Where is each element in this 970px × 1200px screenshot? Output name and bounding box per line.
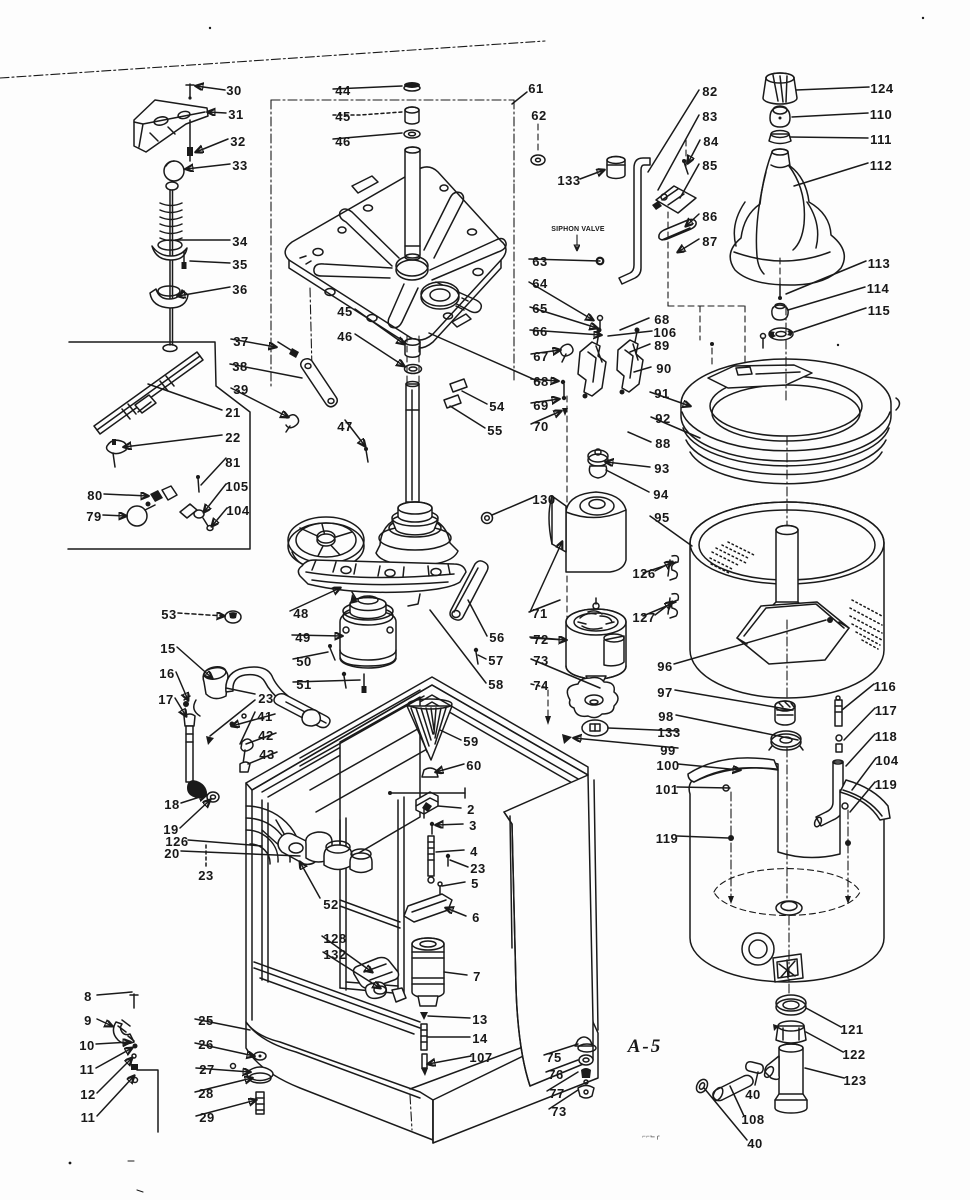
- mounting bolts 119 dashed: [730, 792, 732, 896]
- svg-text:64: 64: [532, 276, 548, 291]
- canister 133: [607, 157, 625, 179]
- brake package below gearcase: [340, 594, 396, 668]
- svg-text:110: 110: [870, 107, 892, 122]
- bracket 2: [416, 792, 438, 818]
- gearcase 49 body: [298, 502, 466, 606]
- svg-text:60: 60: [466, 758, 481, 773]
- rod 107: [421, 1054, 428, 1076]
- suspension rod 34 with spring seats: [150, 190, 188, 352]
- svg-text:9: 9: [84, 1013, 92, 1028]
- svg-text:11: 11: [80, 1062, 95, 1077]
- motor 72: [566, 598, 626, 692]
- screw 30: [186, 84, 194, 100]
- svg-text:85: 85: [702, 158, 717, 173]
- cap 60: [422, 768, 438, 777]
- svg-text:114: 114: [867, 281, 890, 296]
- hose 50: [226, 667, 330, 728]
- screw 81: [196, 475, 200, 492]
- svg-text:61: 61: [528, 81, 543, 96]
- svg-text:90: 90: [656, 361, 671, 376]
- svg-text:107: 107: [469, 1050, 492, 1065]
- svg-text:12: 12: [80, 1087, 95, 1102]
- bolt 51: [362, 674, 367, 693]
- bushing 45: [405, 107, 419, 124]
- svg-text:84: 84: [703, 134, 719, 149]
- svg-text:31: 31: [228, 107, 243, 122]
- svg-text:112: 112: [870, 158, 892, 173]
- washer 46: [404, 130, 420, 138]
- link 38: [301, 359, 338, 407]
- svg-text:113: 113: [868, 256, 890, 271]
- clamp 22: [107, 439, 127, 467]
- svg-text:38: 38: [232, 359, 247, 374]
- valve fitting 128 132: [354, 958, 407, 1003]
- svg-text:83: 83: [702, 109, 717, 124]
- bracket 68 right: [617, 328, 643, 395]
- svg-text:118: 118: [875, 729, 897, 744]
- center dashdot axis: [785, 306, 787, 332]
- perforation patches: [710, 542, 754, 573]
- svg-text:67: 67: [533, 349, 548, 364]
- screws 41 42 43: [206, 714, 253, 772]
- svg-text:54: 54: [489, 399, 505, 414]
- damper rod 4: [428, 836, 434, 883]
- bolt 92 top of ring: [710, 334, 766, 369]
- svg-text:94: 94: [653, 487, 669, 502]
- cabinet bottom skirt: [410, 1005, 598, 1143]
- svg-text:111: 111: [870, 132, 892, 147]
- bolt 74 dashed: [545, 690, 551, 725]
- svg-text:119: 119: [656, 831, 678, 846]
- agitator shaft lower (dashed continuation): [406, 336, 419, 502]
- bolt 51b: [342, 672, 346, 688]
- stud cap 44: [404, 82, 420, 91]
- bracket 66 left: [578, 328, 606, 399]
- svg-text:45: 45: [335, 109, 350, 124]
- svg-text:99: 99: [660, 743, 675, 758]
- washer 115: [769, 328, 793, 340]
- long dash-dot reference line top: [0, 41, 545, 78]
- svg-text:123: 123: [843, 1073, 866, 1088]
- inlet nozzle assembly 15-20: [183, 665, 228, 802]
- svg-text:133: 133: [557, 173, 580, 188]
- leveling leg 26 27 28 29: [231, 1052, 274, 1114]
- agitator shaft front: [405, 147, 420, 260]
- cabinet left wall: [246, 783, 433, 1140]
- tub cover ring 91: [681, 359, 900, 484]
- svg-text:41: 41: [257, 709, 272, 724]
- dash-dot enclosure around gearcase cover: [271, 100, 514, 388]
- svg-text:3: 3: [469, 818, 477, 833]
- inlet elbow 118: [813, 760, 843, 828]
- svg-text:20: 20: [164, 846, 179, 861]
- svg-text:14: 14: [472, 1031, 488, 1046]
- hook 39: [286, 415, 299, 432]
- svg-text:62: 62: [531, 108, 546, 123]
- ring 130: [482, 513, 493, 524]
- svg-text:57: 57: [488, 653, 503, 668]
- svg-text:127: 127: [632, 610, 655, 625]
- svg-text:68: 68: [533, 374, 548, 389]
- svg-text:32: 32: [230, 134, 245, 149]
- slinger 98: [769, 731, 803, 750]
- ball 33: [164, 161, 184, 190]
- counterweight bar 21: [94, 352, 203, 434]
- clip 99: [562, 734, 572, 744]
- svg-text:52: 52: [323, 897, 338, 912]
- svg-text:79: 79: [86, 509, 101, 524]
- feet 75 76 77 73: [575, 1037, 596, 1098]
- svg-text:2: 2: [467, 802, 475, 817]
- svg-text:69: 69: [533, 398, 548, 413]
- svg-text:40: 40: [747, 1136, 762, 1151]
- svg-text:51: 51: [296, 677, 311, 692]
- svg-text:25: 25: [198, 1013, 213, 1028]
- svg-text:26: 26: [198, 1037, 213, 1052]
- svg-text:130: 130: [532, 492, 555, 507]
- dashed box corner right of valve: [668, 212, 745, 372]
- svg-text:43: 43: [259, 747, 274, 762]
- svg-text:7: 7: [473, 969, 481, 984]
- svg-text:80: 80: [87, 488, 102, 503]
- inset box frame: [68, 342, 250, 549]
- center post: [768, 526, 806, 621]
- svg-text:33: 33: [232, 158, 247, 173]
- svg-text:36: 36: [232, 282, 247, 297]
- left flange 100: [688, 758, 778, 782]
- svg-text:35: 35: [232, 257, 247, 272]
- stray specks: [209, 27, 211, 29]
- springs 126 127 right: [668, 556, 678, 618]
- tub 95: [690, 502, 884, 698]
- bolt 47: [364, 447, 368, 462]
- svg-text:40: 40: [745, 1087, 760, 1102]
- svg-text:81: 81: [225, 455, 240, 470]
- svg-text:119: 119: [875, 777, 897, 792]
- screw 37: [278, 342, 299, 358]
- siphon pipe 82: [619, 158, 650, 284]
- svg-text:89: 89: [654, 338, 669, 353]
- svg-text:37: 37: [233, 334, 248, 349]
- svg-text:104: 104: [226, 503, 249, 518]
- bracket 31: [134, 100, 208, 152]
- svg-text:73: 73: [533, 653, 548, 668]
- svg-text:124: 124: [870, 81, 893, 96]
- bracket 6: [404, 894, 452, 922]
- bolt 106: [598, 316, 603, 331]
- svg-text:18: 18: [164, 797, 179, 812]
- svg-text:42: 42: [258, 728, 273, 743]
- bolt 117: [836, 735, 842, 752]
- solenoid 7: [412, 938, 444, 1006]
- svg-text:23: 23: [258, 691, 273, 706]
- svg-text:108: 108: [741, 1112, 764, 1127]
- spider on plate: [314, 192, 506, 328]
- stud 110: [770, 106, 790, 127]
- gasket 86 87: [659, 219, 696, 240]
- svg-text:SIPHON VALVE: SIPHON VALVE: [551, 226, 605, 233]
- svg-text:100: 100: [656, 758, 679, 773]
- svg-text:34: 34: [232, 234, 248, 249]
- svg-text:47: 47: [337, 419, 352, 434]
- retainer 133: [582, 720, 608, 736]
- svg-text:72: 72: [533, 632, 548, 647]
- svg-text:95: 95: [654, 510, 669, 525]
- drain tube 123: [763, 1044, 807, 1113]
- svg-text:122: 122: [842, 1047, 865, 1062]
- svg-text:46: 46: [335, 134, 350, 149]
- svg-text:91: 91: [654, 386, 669, 401]
- LEADERS: [96, 86, 876, 1140]
- svg-text:11: 11: [81, 1110, 96, 1125]
- cabinet top rails: [246, 677, 588, 797]
- svg-text:49: 49: [295, 630, 310, 645]
- svg-text:8: 8: [84, 989, 92, 1004]
- bushing 45 lower: [405, 339, 420, 357]
- svg-text:16: 16: [159, 666, 174, 681]
- funnel 59: [407, 699, 452, 760]
- svg-text:48: 48: [293, 606, 308, 621]
- clips 54 55: [444, 379, 467, 408]
- valve body 85: [652, 186, 696, 213]
- knob 79: [127, 505, 155, 526]
- svg-text:121: 121: [840, 1022, 863, 1037]
- svg-text:117: 117: [875, 703, 897, 718]
- svg-text:56: 56: [489, 630, 504, 645]
- clamp 40 small: [746, 1062, 763, 1073]
- seal 114: [772, 304, 788, 321]
- hose ring 121: [776, 995, 806, 1015]
- pump 52: [306, 832, 372, 873]
- svg-text:77: 77: [549, 1086, 564, 1101]
- screw 3: [430, 822, 434, 834]
- svg-text:29: 29: [199, 1110, 214, 1125]
- svg-text:23: 23: [470, 861, 485, 876]
- outer tub: [688, 306, 890, 996]
- elbow 40 lower: [694, 1077, 710, 1094]
- svg-text:63: 63: [532, 254, 547, 269]
- svg-text:82: 82: [702, 84, 717, 99]
- pulley 48: [288, 517, 364, 569]
- link 56: [450, 561, 488, 620]
- pump cam 74: [567, 678, 618, 718]
- svg-text:76: 76: [548, 1067, 563, 1082]
- svg-text:132: 132: [323, 947, 346, 962]
- svg-text:53: 53: [161, 607, 176, 622]
- svg-text:86: 86: [702, 209, 717, 224]
- svg-text:17: 17: [158, 692, 173, 707]
- svg-text:101: 101: [655, 782, 678, 797]
- washer 46 lower: [405, 365, 422, 374]
- clip 67: [560, 344, 573, 362]
- svg-text:87: 87: [702, 234, 717, 249]
- hinge screws 8-12: [113, 994, 158, 1132]
- svg-text:59: 59: [463, 734, 478, 749]
- agitator 112: [730, 149, 844, 285]
- washer 62: [531, 124, 545, 165]
- base casting: [298, 560, 466, 592]
- svg-text:133: 133: [657, 725, 680, 740]
- screw 23: [446, 854, 450, 866]
- svg-text:93: 93: [654, 461, 669, 476]
- side panel right: [504, 775, 598, 1086]
- svg-text:⌐⌐⌙╭: ⌐⌐⌙╭: [642, 1134, 660, 1140]
- svg-text:96: 96: [657, 659, 672, 674]
- svg-text:88: 88: [655, 436, 670, 451]
- screw 5: [438, 882, 442, 894]
- svg-text:74: 74: [533, 678, 549, 693]
- svg-text:70: 70: [533, 419, 548, 434]
- screw 13: [420, 1012, 428, 1020]
- svg-text:55: 55: [487, 423, 502, 438]
- coupling nut 122: [773, 1021, 806, 1043]
- gearcase cover plate: [285, 167, 506, 348]
- cabinet back wall and opening: [262, 690, 436, 994]
- svg-text:46: 46: [337, 329, 352, 344]
- seal 97: [775, 701, 795, 725]
- svg-text:75: 75: [546, 1050, 561, 1065]
- bolt 57: [474, 648, 478, 664]
- dashed drop line center: [566, 396, 568, 660]
- bolt set 80: [146, 486, 178, 507]
- svg-text:10: 10: [79, 1038, 94, 1053]
- svg-text:4: 4: [470, 844, 478, 859]
- svg-text:66: 66: [532, 324, 547, 339]
- svg-text:30: 30: [226, 83, 241, 98]
- svg-text:104: 104: [875, 753, 898, 768]
- svg-text:22: 22: [225, 430, 240, 445]
- svg-text:44: 44: [335, 83, 351, 98]
- svg-text:50: 50: [296, 654, 311, 669]
- svg-text:115: 115: [868, 303, 890, 318]
- svg-text:15: 15: [160, 641, 175, 656]
- svg-text:5: 5: [471, 876, 479, 891]
- svg-text:105: 105: [225, 479, 248, 494]
- svg-text:97: 97: [657, 685, 672, 700]
- fasteners 68 69 70: [561, 380, 568, 416]
- svg-text:13: 13: [472, 1012, 487, 1027]
- right flange 101: [840, 780, 890, 820]
- clutch spring 93 94: [588, 449, 608, 478]
- svg-text:71: 71: [532, 606, 547, 621]
- svg-text:23: 23: [198, 868, 213, 883]
- pivot dome: [246, 806, 318, 864]
- bolt 50 arrow: [328, 644, 335, 660]
- svg-text:39: 39: [233, 382, 248, 397]
- washers 104 105: [180, 504, 213, 531]
- rail to solenoid: [254, 900, 420, 1034]
- hose 108: [711, 1075, 753, 1102]
- pin 116: [835, 696, 842, 726]
- svg-text:28: 28: [198, 1086, 213, 1101]
- motor cover 71: [549, 492, 626, 572]
- screw 84: [682, 140, 688, 174]
- screw 35: [182, 251, 187, 269]
- svg-text:116: 116: [874, 679, 896, 694]
- svg-text:27: 27: [199, 1062, 214, 1077]
- svg-text:128: 128: [323, 931, 346, 946]
- svg-text:126: 126: [632, 566, 655, 581]
- cap 53: [225, 611, 241, 623]
- svg-text:45: 45: [337, 304, 352, 319]
- svg-text:A-5: A-5: [627, 1036, 663, 1057]
- svg-text:6: 6: [472, 910, 480, 925]
- stud 113: [778, 258, 782, 300]
- svg-text:21: 21: [225, 405, 240, 420]
- svg-text:73: 73: [551, 1104, 566, 1119]
- spring 14: [421, 1024, 427, 1050]
- svg-text:92: 92: [655, 411, 670, 426]
- svg-text:98: 98: [658, 709, 673, 724]
- tub interior: [714, 869, 860, 916]
- agitator cap 124: [763, 73, 797, 104]
- nut 111: [769, 131, 791, 144]
- svg-text:65: 65: [532, 301, 547, 316]
- svg-text:58: 58: [488, 677, 503, 692]
- screw 32: [187, 120, 193, 161]
- hex mounting plate: [737, 602, 849, 664]
